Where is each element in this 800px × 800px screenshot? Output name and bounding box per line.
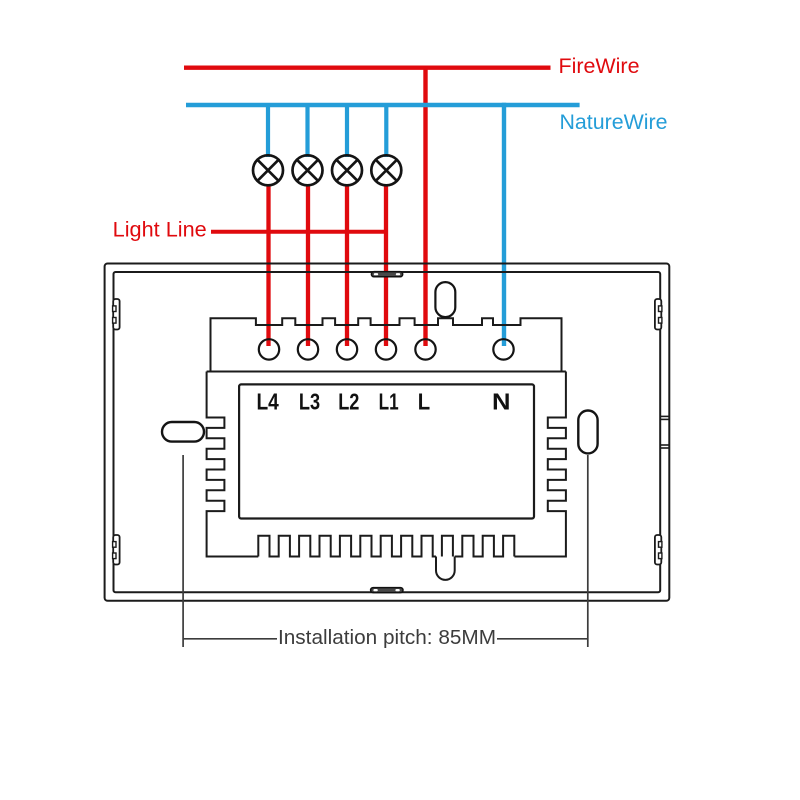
dimension line left extension — [182, 455, 184, 647]
lamp LP3 (circle with X) — [332, 155, 362, 185]
clip bottom-left — [113, 535, 120, 565]
terminal screw L — [415, 339, 435, 359]
bottom center tab (dark) — [371, 588, 403, 593]
svg-text:NatureWire: NatureWire — [560, 111, 668, 134]
svg-text:Light Line: Light Line — [113, 219, 207, 242]
terminal screw L4 — [259, 339, 279, 359]
wire: red return from lamp 2 to terminal L3 — [306, 184, 310, 346]
wall plate outer rectangle — [105, 264, 670, 601]
wire: blue stub to lamp 4 — [384, 105, 388, 157]
wire: NatureWire vertical drop to terminal N — [502, 103, 506, 346]
wire: FireWire vertical drop to terminal L — [423, 66, 427, 347]
terminal screw N — [493, 339, 513, 359]
wire: blue stub to lamp 2 — [305, 105, 309, 157]
svg-text:L3: L3 — [299, 389, 320, 415]
wire: FireWire horizontal (live line) — [184, 65, 551, 69]
wire: red return from lamp 4 to terminal L1 — [384, 184, 388, 346]
lamp LP1 (circle with X) — [253, 155, 283, 185]
svg-text:L2: L2 — [338, 389, 359, 415]
svg-text:N: N — [492, 389, 511, 415]
top center tab (dark) — [371, 272, 402, 277]
wire: blue stub to lamp 3 — [345, 105, 349, 157]
module bottom comb tooth above tab — [442, 536, 453, 557]
svg-text:Installation pitch: 85MM: Installation pitch: 85MM — [278, 627, 496, 649]
svg-text:FireWire: FireWire — [559, 55, 640, 78]
svg-text:L1: L1 — [379, 389, 399, 415]
module bottom comb fins — [258, 536, 514, 557]
wall plate inner rectangle — [114, 272, 661, 592]
dimension line right extension — [587, 455, 589, 647]
svg-text:L: L — [418, 389, 430, 415]
lamp LP4 (circle with X) — [371, 155, 401, 185]
switch module body with heat-sink fins — [207, 372, 566, 557]
wire: blue stub to lamp 1 — [266, 105, 270, 157]
terminal block outline with castellated top — [211, 318, 562, 371]
wire: NatureWire horizontal (neutral line) — [186, 103, 580, 107]
right mounting hole (vertical slot) — [578, 411, 597, 454]
clip top-left — [113, 299, 120, 330]
wire: Light Line horizontal label lead — [211, 230, 388, 234]
top oval keyhole above terminal block — [435, 282, 455, 317]
clip bottom-right — [655, 535, 662, 565]
wire: red return from lamp 3 to terminal L2 — [345, 184, 349, 346]
terminal screw L1 — [376, 339, 396, 359]
terminal screw L3 — [298, 339, 318, 359]
svg-text:L4: L4 — [256, 389, 278, 415]
dimension horizontal left segment — [183, 638, 277, 640]
clip top-right — [655, 299, 662, 330]
terminal screw L2 — [337, 339, 357, 359]
right edge double tick marks lower — [660, 445, 669, 448]
dimension horizontal right segment — [497, 638, 588, 640]
left mounting hole (horizontal slot) — [162, 422, 204, 442]
right edge double tick marks upper — [660, 416, 669, 419]
module bottom rounded tab — [436, 557, 455, 580]
touch panel rectangle — [239, 384, 534, 518]
lamp LP2 (circle with X) — [293, 155, 323, 185]
wire: red return from lamp 1 to terminal L4 — [266, 184, 270, 346]
